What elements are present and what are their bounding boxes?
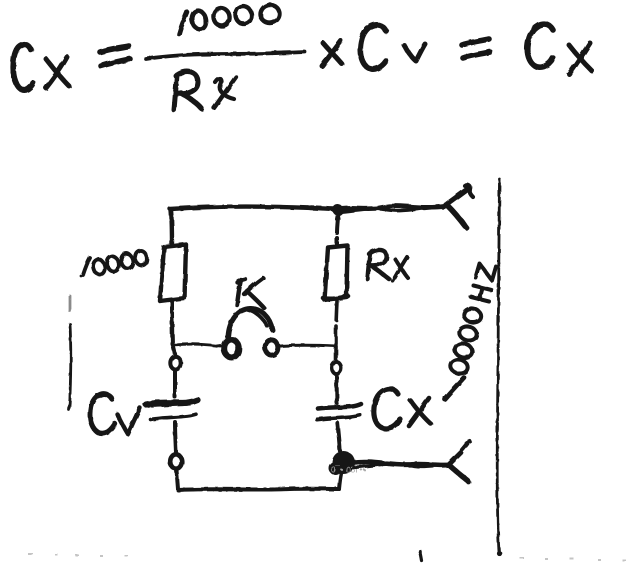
terminal Y bottom right xyxy=(449,441,470,483)
terminal Y top right xyxy=(446,185,473,228)
resistor R 10000 xyxy=(160,245,186,302)
equals sign 2 xyxy=(462,39,490,58)
stray mark bottom (apostrophe) xyxy=(420,551,422,561)
label 10000Hz (rotated) xyxy=(445,264,497,400)
wire blob to bottom terminal (scribble) xyxy=(352,462,450,468)
label 10000 (resistor value) xyxy=(79,249,148,277)
wire above Cv xyxy=(173,371,177,397)
wire below Cx xyxy=(338,423,341,451)
label Cv xyxy=(90,394,140,434)
fraction bar xyxy=(146,52,305,59)
wire top right scribble to terminal xyxy=(334,206,446,212)
fraction numerator 10000 xyxy=(179,3,281,34)
multiplication sign xyxy=(322,41,342,66)
equals sign 1 xyxy=(100,46,130,66)
capacitor Cx xyxy=(317,404,361,420)
node junction bottom right (blob) xyxy=(329,451,356,475)
fraction denominator Rx xyxy=(174,71,236,110)
wire blob down to bottom wire xyxy=(339,474,341,489)
terminal ring right (above Cx) xyxy=(332,362,341,374)
wire bridge left horizontal xyxy=(173,344,221,346)
wire below Rx xyxy=(336,301,337,344)
faint dust specks bottom xyxy=(28,553,626,561)
terminal ring left (above Cv) xyxy=(170,356,180,369)
switch contact right xyxy=(265,340,278,355)
switch contact left xyxy=(224,340,239,358)
wire bottom horizontal xyxy=(178,489,339,490)
wire bridge-left node down to Cv xyxy=(173,344,176,356)
stray pencil line left xyxy=(69,296,71,410)
wire below ring to bottom wire xyxy=(177,470,179,489)
label Cx xyxy=(374,389,431,429)
formula term Cv xyxy=(360,25,425,69)
wire left vertical top xyxy=(171,210,172,246)
node bridge right xyxy=(334,346,338,360)
terminal ring left (below Cv) xyxy=(170,454,182,468)
wire below Cv xyxy=(175,422,176,452)
resistor Rx xyxy=(325,246,348,301)
formula term Cx (right side of equation) xyxy=(527,24,592,74)
switch arc xyxy=(228,308,273,337)
capacitor Cv xyxy=(146,400,198,420)
wire top horizontal xyxy=(170,207,334,209)
wire Rx branch top xyxy=(337,218,338,246)
generator line right vertical xyxy=(497,179,499,552)
wire below resistor left xyxy=(170,301,175,344)
formula term Cx (left side of equation) xyxy=(13,44,69,90)
switch K label xyxy=(237,278,264,308)
wire bridge right horizontal xyxy=(280,344,335,348)
wire above Cx xyxy=(335,375,340,403)
label Rx xyxy=(368,250,409,281)
node junction top (Rx branch) xyxy=(333,205,344,220)
